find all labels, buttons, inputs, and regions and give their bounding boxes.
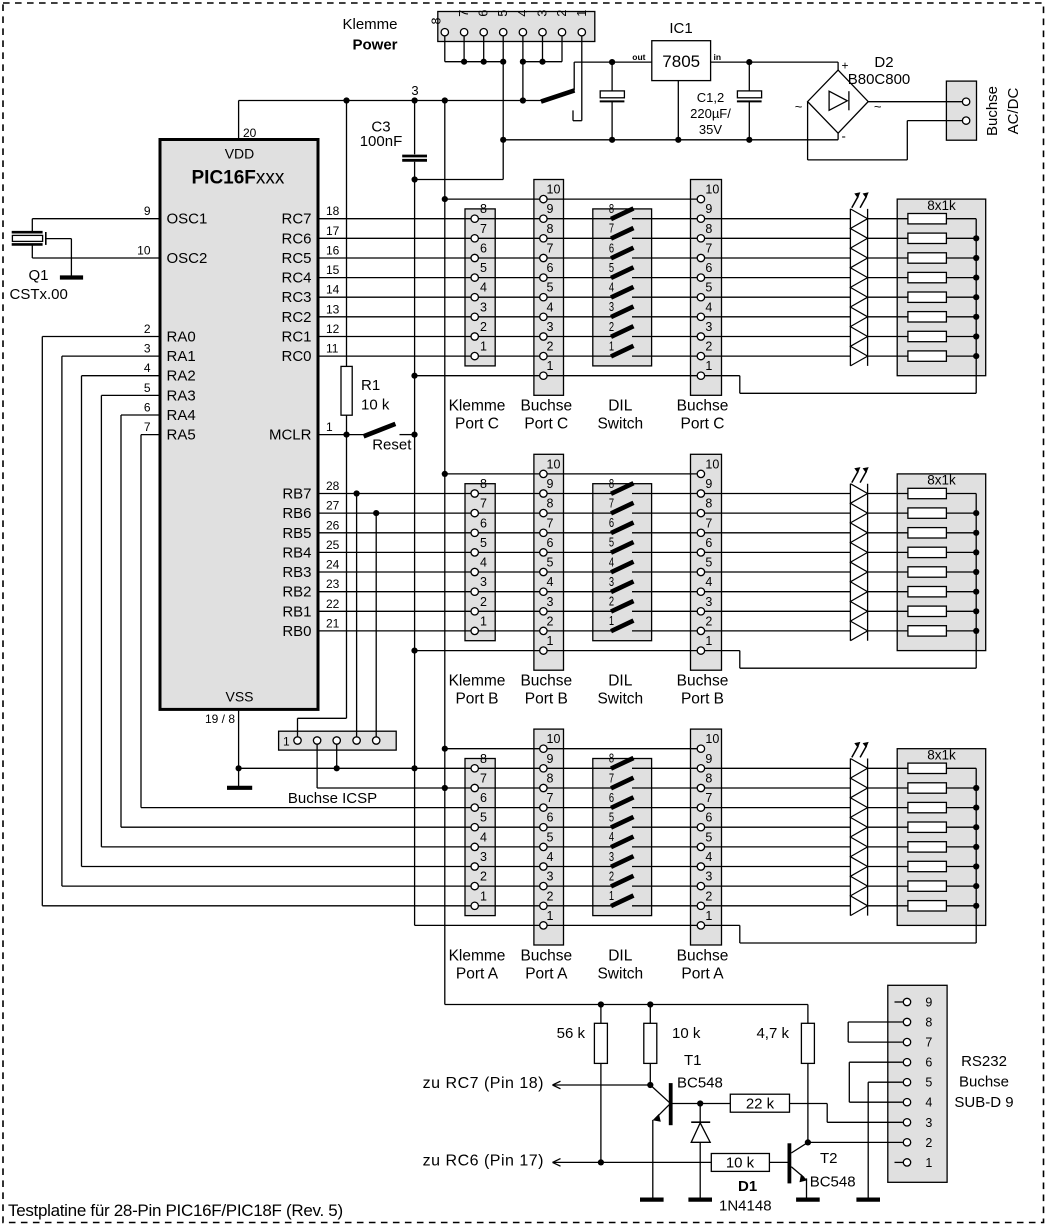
svg-text:4: 4 — [705, 850, 712, 864]
wire ICSP pin 4 to RB7 — [354, 490, 360, 736]
svg-text:Klemme: Klemme — [449, 947, 506, 964]
pin RB7 — [282, 479, 339, 503]
svg-text:3: 3 — [547, 870, 554, 884]
svg-text:27: 27 — [326, 499, 340, 513]
svg-text:Port A: Port A — [681, 965, 724, 982]
svg-text:2: 2 — [555, 10, 569, 17]
regulator IC1 7805 — [632, 20, 721, 140]
svg-text:1: 1 — [326, 420, 333, 434]
wire RA2 lead — [82, 376, 161, 867]
wire RS232 pins 8-7 loop — [848, 1022, 903, 1042]
DIL Switch Port B levers — [609, 477, 634, 631]
svg-text:1: 1 — [705, 634, 712, 648]
svg-text:D1: D1 — [738, 1178, 757, 1195]
svg-text:4: 4 — [609, 555, 614, 569]
svg-text:3: 3 — [480, 575, 487, 589]
svg-text:Reset: Reset — [372, 437, 412, 454]
svg-text:VDD: VDD — [225, 146, 255, 162]
svg-text:Port A: Port A — [456, 965, 499, 982]
resistor network 8x1k Port C — [868, 198, 986, 376]
svg-text:10 k: 10 k — [672, 1025, 701, 1042]
switch Reset — [364, 424, 396, 436]
svg-text:25: 25 — [326, 538, 340, 552]
wire network common return Port C — [740, 219, 976, 394]
svg-text:3: 3 — [609, 850, 614, 864]
svg-text:3: 3 — [144, 342, 151, 356]
svg-text:IC1: IC1 — [669, 20, 692, 37]
wire RA0 line — [42, 905, 850, 907]
ground Q1 — [60, 275, 83, 279]
svg-text:8: 8 — [480, 202, 487, 216]
svg-text:7805: 7805 — [662, 52, 700, 71]
svg-text:14: 14 — [326, 283, 340, 297]
wire RB7 line — [318, 493, 850, 495]
svg-text:Buchse ICSP: Buchse ICSP — [288, 790, 377, 807]
label DIL Switch Port C — [597, 398, 643, 433]
svg-text:6: 6 — [480, 516, 487, 530]
pin RA2 — [144, 361, 196, 385]
svg-text:8: 8 — [705, 497, 712, 511]
resistor 22k — [730, 1094, 789, 1112]
wire VDD to Buchse pin 10 Port C — [445, 198, 701, 200]
resistor network 8x1k Port B — [868, 473, 986, 651]
svg-text:6: 6 — [144, 401, 151, 415]
wire power pins 4-2 VDD bus — [520, 36, 562, 104]
node ground rail crossing Port A — [411, 765, 417, 771]
connector Klemme Port B body — [465, 484, 495, 641]
svg-text:1: 1 — [609, 889, 614, 903]
svg-text:7: 7 — [609, 771, 614, 785]
svg-text:8: 8 — [705, 222, 712, 236]
resistor 10k base — [711, 1154, 787, 1172]
svg-text:RC7: RC7 — [281, 211, 311, 228]
pin RA4 — [144, 401, 196, 425]
label C1,2 220uF/35V — [690, 90, 731, 137]
connector Buchse Port C left body — [534, 180, 564, 396]
svg-text:RB7: RB7 — [282, 486, 311, 503]
svg-text:MCLR: MCLR — [269, 427, 312, 444]
wire RC4 line — [318, 277, 850, 279]
svg-text:3: 3 — [705, 870, 712, 884]
svg-text:4: 4 — [705, 575, 712, 589]
wire RC5 line — [318, 257, 850, 259]
pin RA1 — [144, 342, 196, 366]
svg-text:Port C: Port C — [524, 416, 568, 433]
svg-text:4: 4 — [609, 281, 614, 295]
svg-text:3: 3 — [547, 320, 554, 334]
svg-text:~: ~ — [795, 99, 803, 114]
transistor T1 BC548 — [650, 1052, 730, 1198]
DIL Switch Port A levers — [609, 752, 634, 907]
wire MCLR to ICSP pin 1 — [298, 435, 347, 737]
svg-text:RA5: RA5 — [167, 427, 196, 444]
svg-text:4: 4 — [480, 830, 487, 844]
pin RC3 — [281, 283, 339, 307]
svg-text:8: 8 — [705, 772, 712, 786]
wire VDD to pullup resistors — [445, 1001, 808, 1007]
svg-text:2: 2 — [609, 869, 614, 883]
svg-text:SUB-D 9: SUB-D 9 — [954, 1094, 1013, 1111]
label zu RC6 — [423, 1152, 570, 1169]
connector Buchse Port B left body — [534, 454, 564, 670]
svg-text:4: 4 — [705, 300, 712, 314]
svg-text:6: 6 — [480, 791, 487, 805]
ground D1 — [688, 1197, 712, 1201]
svg-text:Port B: Port B — [455, 691, 498, 708]
svg-text:19 / 8: 19 / 8 — [205, 712, 235, 726]
svg-text:7: 7 — [609, 222, 614, 236]
svg-text:4: 4 — [547, 300, 554, 314]
svg-text:RA1: RA1 — [167, 348, 196, 365]
pin RB6 — [282, 499, 339, 522]
pin RC2 — [281, 302, 339, 326]
svg-text:2: 2 — [547, 889, 554, 903]
svg-text:4,7 k: 4,7 k — [756, 1025, 789, 1042]
pin RB0 — [282, 616, 339, 640]
svg-text:RC1: RC1 — [281, 329, 311, 346]
svg-text:4: 4 — [516, 10, 530, 17]
label Buchse Port C right — [677, 398, 729, 433]
svg-text:6: 6 — [547, 261, 554, 275]
wire power pins 8-5 ground bus — [415, 36, 507, 180]
svg-text:6: 6 — [609, 241, 614, 255]
pin RC6 — [281, 224, 339, 248]
svg-text:3: 3 — [609, 300, 614, 314]
svg-text:10: 10 — [705, 183, 719, 197]
svg-text:8: 8 — [547, 497, 554, 511]
svg-text:RB4: RB4 — [282, 544, 311, 561]
connector Buchse Port A right pins — [697, 732, 719, 929]
svg-text:4: 4 — [480, 556, 487, 570]
svg-text:RB0: RB0 — [282, 623, 311, 640]
svg-text:RC2: RC2 — [281, 309, 311, 326]
label RS232 Buchse SUB-D 9 — [954, 1053, 1013, 1111]
svg-text:OSC2: OSC2 — [167, 250, 208, 267]
svg-text:Q1: Q1 — [28, 267, 48, 284]
capacitor C1 220uF — [600, 62, 625, 140]
pin RB1 — [282, 597, 339, 621]
wire RC2 line — [318, 316, 850, 318]
pin RC4 — [281, 263, 339, 287]
svg-text:R1: R1 — [361, 377, 380, 394]
svg-text:9: 9 — [705, 202, 712, 216]
svg-text:Buchse: Buchse — [959, 1074, 1009, 1091]
pin RB2 — [282, 577, 339, 601]
connector Klemme Port A body — [465, 759, 495, 916]
svg-text:6: 6 — [477, 10, 491, 17]
svg-text:6: 6 — [925, 1056, 932, 1070]
connector Klemme Port C body — [465, 209, 495, 366]
svg-text:PIC16Fxxx: PIC16Fxxx — [192, 168, 285, 189]
svg-text:6: 6 — [705, 261, 712, 275]
svg-text:RA4: RA4 — [167, 407, 196, 424]
svg-text:9: 9 — [144, 204, 151, 218]
svg-text:7: 7 — [705, 242, 712, 256]
wire network common return Port A — [740, 768, 976, 943]
wire crystal electrode to ground — [46, 239, 72, 276]
svg-text:Klemme: Klemme — [449, 398, 506, 415]
svg-text:1: 1 — [480, 614, 487, 628]
svg-text:2: 2 — [480, 595, 487, 609]
svg-text:35V: 35V — [699, 122, 722, 137]
pin RC0 — [281, 342, 338, 366]
svg-text:10: 10 — [547, 457, 561, 471]
svg-text:3: 3 — [705, 320, 712, 334]
wire RB4 line — [318, 551, 850, 553]
label Buchse Port B right — [677, 673, 729, 708]
connector Buchse Port B right body — [691, 454, 722, 670]
svg-text:22: 22 — [326, 597, 340, 611]
svg-text:9: 9 — [547, 477, 554, 491]
svg-text:10 k: 10 k — [361, 397, 390, 414]
svg-text:RC3: RC3 — [281, 289, 311, 306]
svg-text:2: 2 — [144, 322, 151, 336]
svg-text:3: 3 — [925, 1116, 932, 1130]
capacitor C2 220uF — [737, 62, 762, 140]
svg-text:26: 26 — [326, 518, 340, 532]
DIL Switch Port C body — [593, 209, 652, 366]
svg-text:1: 1 — [480, 889, 487, 903]
svg-text:6: 6 — [480, 242, 487, 256]
svg-text:4: 4 — [925, 1096, 932, 1110]
svg-text:Port A: Port A — [525, 965, 568, 982]
svg-text:7: 7 — [547, 242, 554, 256]
svg-text:17: 17 — [326, 224, 340, 238]
connector Klemme Port B pins — [471, 477, 487, 635]
svg-text:1: 1 — [547, 909, 554, 923]
bridge rectifier D2 B80C800 — [795, 54, 911, 144]
svg-text:3: 3 — [536, 10, 550, 17]
svg-text:15: 15 — [326, 263, 340, 277]
wire RA0 lead — [42, 337, 160, 906]
svg-text:9: 9 — [705, 477, 712, 491]
svg-text:10 k: 10 k — [726, 1155, 755, 1172]
svg-text:RA0: RA0 — [167, 329, 196, 346]
ground RS232 — [856, 1197, 880, 1201]
pin RB3 — [282, 558, 339, 582]
wire RC7 net — [570, 1084, 650, 1086]
svg-text:16: 16 — [326, 244, 340, 258]
svg-text:AC/DC: AC/DC — [1005, 87, 1022, 134]
svg-text:2: 2 — [547, 340, 554, 354]
svg-text:1: 1 — [705, 909, 712, 923]
svg-text:7: 7 — [547, 791, 554, 805]
connector Buchse Port A right body — [691, 729, 722, 945]
svg-text:5: 5 — [705, 556, 712, 570]
svg-text:8x1k: 8x1k — [927, 473, 956, 488]
svg-text:1: 1 — [547, 359, 554, 373]
svg-text:6: 6 — [547, 811, 554, 825]
svg-text:7: 7 — [705, 516, 712, 530]
svg-text:4: 4 — [547, 850, 554, 864]
transistor T2 BC548 — [789, 1142, 855, 1197]
resistor network 8x1k Port A — [868, 748, 986, 926]
label Klemme Port C — [449, 398, 506, 433]
svg-text:RA2: RA2 — [167, 368, 196, 385]
svg-text:VSS: VSS — [225, 689, 253, 705]
pin OSC1 — [144, 204, 208, 228]
pin 19/8 VSS wire — [205, 709, 242, 786]
DIL Switch Port A body — [593, 759, 652, 916]
svg-text:3: 3 — [609, 575, 614, 589]
svg-text:T2: T2 — [820, 1150, 838, 1167]
wire RB5 line — [318, 532, 850, 534]
svg-text:Buchse: Buchse — [520, 398, 572, 415]
connector Klemme Port A pins — [471, 752, 487, 910]
svg-text:5: 5 — [609, 536, 614, 550]
svg-text:11: 11 — [326, 342, 339, 356]
svg-text:8: 8 — [609, 752, 614, 766]
wire RB0 line — [318, 630, 850, 632]
pin RC7 — [281, 204, 339, 228]
svg-text:2: 2 — [547, 614, 554, 628]
label Klemme Port B — [449, 673, 506, 708]
connector Buchse Port B right pins — [697, 457, 719, 654]
wire VDD bus — [239, 97, 541, 103]
svg-text:8: 8 — [547, 772, 554, 786]
wire RB3 line — [318, 571, 850, 573]
svg-text:5: 5 — [547, 556, 554, 570]
svg-text:Port B: Port B — [525, 691, 568, 708]
svg-text:22 k: 22 k — [746, 1096, 775, 1113]
svg-text:5: 5 — [925, 1076, 932, 1090]
crystal Q1 CSTx.00 — [10, 232, 68, 303]
wire ICSP pin 2 to VDD — [316, 745, 318, 789]
label Buchse Port A right — [677, 947, 729, 982]
svg-text:RS232: RS232 — [961, 1053, 1007, 1070]
wire 22k to RS232 pin 3 — [790, 1104, 904, 1123]
svg-text:2: 2 — [480, 320, 487, 334]
svg-text:Buchse: Buchse — [520, 947, 572, 964]
svg-text:Klemme: Klemme — [342, 16, 397, 33]
wire OSC1 — [32, 219, 160, 232]
wire VDD rail — [442, 101, 448, 1005]
wire power ground bus — [503, 137, 838, 143]
svg-text:D2: D2 — [874, 54, 893, 71]
svg-text:OSC1: OSC1 — [167, 211, 208, 228]
connector RS232 Buchse SUB-D 9 — [888, 985, 947, 1182]
svg-text:6: 6 — [547, 536, 554, 550]
svg-text:Port B: Port B — [681, 691, 724, 708]
svg-text:1: 1 — [609, 339, 614, 353]
svg-text:28: 28 — [326, 479, 340, 493]
ground VSS — [227, 786, 252, 790]
svg-text:21: 21 — [326, 616, 340, 630]
pin RC1 — [281, 322, 339, 346]
svg-text:4: 4 — [609, 830, 614, 844]
connector Buchse Port A left body — [534, 729, 564, 945]
svg-text:RC0: RC0 — [281, 348, 311, 365]
resistor 4,7k — [756, 1005, 814, 1146]
resistor 56k — [557, 1005, 608, 1166]
svg-text:10: 10 — [547, 183, 561, 197]
svg-text:DIL: DIL — [608, 398, 633, 415]
wire ground line Port A — [415, 924, 740, 926]
svg-text:Buchse: Buchse — [677, 398, 729, 415]
connector Buchse Port A left pins — [540, 732, 561, 929]
svg-text:10: 10 — [137, 244, 151, 258]
svg-text:7: 7 — [480, 222, 487, 236]
svg-text:2: 2 — [480, 870, 487, 884]
svg-text:5: 5 — [609, 811, 614, 825]
svg-text:1: 1 — [575, 10, 589, 17]
svg-text:RB2: RB2 — [282, 584, 311, 601]
svg-text:Buchse: Buchse — [984, 86, 1001, 136]
wire RA3 line — [101, 846, 850, 848]
diode D1 1N4148 — [691, 1104, 771, 1215]
svg-text:100nF: 100nF — [360, 133, 403, 150]
svg-text:4: 4 — [144, 361, 151, 375]
svg-text:Power: Power — [352, 37, 397, 54]
connector Klemme Power — [342, 10, 594, 54]
svg-text:-: - — [842, 129, 846, 144]
wire T2 collector to RS232 pin 2 — [808, 1141, 903, 1143]
connector Buchse Port C left pins — [540, 183, 561, 380]
svg-text:T1: T1 — [684, 1052, 702, 1069]
svg-text:10: 10 — [547, 732, 561, 746]
label zu RC7 — [423, 1075, 570, 1092]
wire RA4 line — [121, 826, 850, 828]
svg-text:3: 3 — [705, 595, 712, 609]
svg-text:zu RC6 (Pin 17): zu RC6 (Pin 17) — [423, 1152, 544, 1169]
pin RB5 — [282, 518, 339, 542]
svg-text:23: 23 — [326, 577, 340, 591]
svg-text:8: 8 — [480, 477, 487, 491]
svg-text:RC6: RC6 — [281, 230, 311, 247]
capacitor C3 100nF — [360, 101, 427, 183]
label DIL Switch Port A — [597, 947, 643, 982]
svg-text:RB6: RB6 — [282, 505, 311, 522]
svg-text:Switch: Switch — [597, 416, 643, 433]
svg-text:8x1k: 8x1k — [927, 748, 956, 763]
svg-text:Testplatine für 28-Pin PIC16F/: Testplatine für 28-Pin PIC16F/PIC18F (Re… — [8, 1201, 343, 1220]
svg-text:10: 10 — [705, 457, 719, 471]
svg-text:2: 2 — [705, 340, 712, 354]
svg-text:Switch: Switch — [597, 965, 643, 982]
wire RA5 line — [141, 807, 850, 809]
wire RC7 line — [318, 218, 850, 220]
svg-text:DIL: DIL — [608, 673, 633, 690]
label Buchse Port C left — [520, 398, 572, 433]
wire VDD to R1 — [346, 101, 348, 367]
svg-text:out: out — [632, 52, 645, 62]
svg-text:1N4148: 1N4148 — [719, 1198, 772, 1215]
svg-text:RB1: RB1 — [282, 603, 311, 620]
svg-text:zu RC7 (Pin 18): zu RC7 (Pin 18) — [423, 1075, 544, 1092]
wire VDD Port A line — [317, 787, 850, 789]
connector Buchse AC/DC — [946, 81, 1022, 140]
svg-text:8: 8 — [480, 752, 487, 766]
wire power pin 1 to switch contact — [573, 36, 582, 121]
svg-text:12: 12 — [326, 322, 340, 336]
LED array Port B — [850, 467, 868, 641]
svg-text:5: 5 — [480, 811, 487, 825]
connector Buchse Port B left pins — [540, 457, 561, 654]
svg-text:7: 7 — [144, 420, 151, 434]
wire RS232 pins 6-4 loop — [849, 1062, 903, 1102]
svg-text:1: 1 — [705, 359, 712, 373]
LED array Port C — [850, 192, 868, 366]
svg-text:8: 8 — [609, 202, 614, 216]
svg-text:8: 8 — [430, 17, 444, 24]
ground T2 — [796, 1197, 820, 1201]
svg-text:2: 2 — [609, 595, 614, 609]
svg-text:Port C: Port C — [455, 416, 499, 433]
svg-text:5: 5 — [144, 381, 151, 395]
svg-text:1: 1 — [480, 340, 487, 354]
wire VDD to Buchse pin 10 Port A — [445, 748, 701, 750]
wire RS232 pin 5 to ground — [868, 1082, 903, 1197]
